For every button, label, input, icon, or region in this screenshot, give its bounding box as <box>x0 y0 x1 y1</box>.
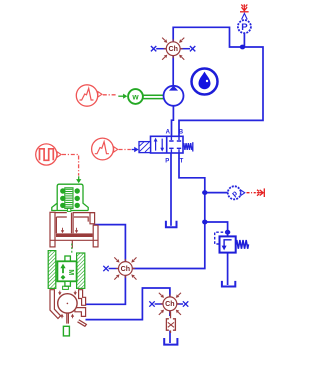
svg-text:w: w <box>131 93 139 102</box>
svg-text:Ch: Ch <box>165 300 174 308</box>
svg-text:M: M <box>67 269 74 275</box>
svg-text:B: B <box>179 130 184 136</box>
svg-text:Ch: Ch <box>121 265 130 273</box>
svg-text:A: A <box>166 130 171 136</box>
svg-text:T: T <box>180 158 184 164</box>
svg-text:P: P <box>165 158 169 164</box>
svg-text:Ch: Ch <box>168 45 177 53</box>
svg-text:P: P <box>241 22 248 33</box>
